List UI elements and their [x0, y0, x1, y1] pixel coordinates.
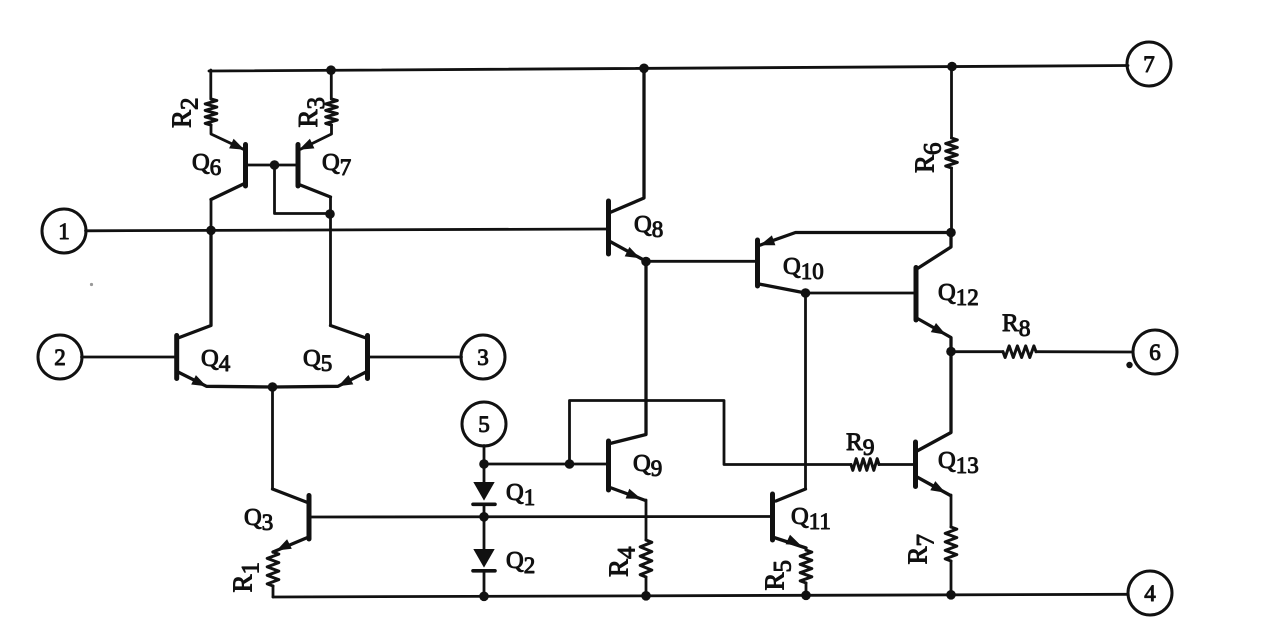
svg-text:1: 1: [58, 219, 70, 244]
node dust speck: [90, 283, 93, 286]
transistor Q8 emitter with arrow: [610, 242, 646, 262]
transistor Q10 collector: [759, 284, 806, 293]
svg-text:R2: R2: [167, 97, 204, 128]
transistor Q10 base bar: [755, 240, 760, 286]
wire base junction down to Q7 collector: [275, 165, 331, 214]
transistor Q8 collector to top rail: [610, 68, 644, 212]
transistor Q13 base bar: [913, 442, 918, 487]
node bottom rail / R7 junction: [946, 590, 956, 600]
node bottom rail / R4 junction: [641, 591, 651, 601]
transistor Q4 base bar: [174, 336, 179, 379]
resistor R1: [267, 552, 279, 586]
node Q8 emitter junction: [641, 257, 651, 267]
node pin5 / Q9 base wire junction: [479, 459, 489, 469]
svg-text:Q1: Q1: [506, 479, 535, 510]
node Q4/Q5 emitter junction: [268, 382, 278, 392]
pin 6: [1133, 330, 1177, 374]
transistor Q7 emitter arrow (PNP, into bar): [299, 139, 314, 150]
wire R8 node to resistor: [951, 350, 1003, 353]
transistor Q11 collector up to Q12 base node: [776, 489, 806, 501]
wire R2 bottom to Q6 emitter: [211, 125, 244, 149]
wire Q6 collector to pin1 node: [210, 200, 213, 231]
wire R6 down to Q10 emitter node: [950, 168, 953, 233]
node Q1-Q2 / base-wire junction: [479, 512, 489, 522]
transistor Q7 collector: [299, 185, 331, 198]
svg-text:Q10: Q10: [783, 253, 824, 284]
svg-text:6: 6: [1149, 340, 1161, 365]
transistor Q11 base bar: [770, 494, 775, 540]
transistor Q5 collector: [331, 326, 367, 339]
transistor Q5 base bar: [365, 336, 370, 379]
wire R5 to bottom rail: [805, 583, 808, 595]
node top-rail / R6 junction: [947, 62, 957, 72]
svg-text:3: 3: [477, 345, 489, 370]
wire pin5 node to Q9 base node: [484, 463, 570, 466]
pin 5: [462, 402, 506, 446]
svg-text:Q12: Q12: [938, 279, 979, 310]
node top-rail / R3 junction: [326, 65, 336, 75]
transistor Q4 collector: [178, 231, 211, 339]
pin 3: [461, 335, 505, 379]
node bottom rail / R5 junction: [801, 591, 811, 601]
wire Q6 base to Q7 base: [248, 164, 296, 167]
node Q10 emitter / R6 / Q12 collector junction: [946, 228, 956, 238]
resistor R9: [851, 459, 879, 471]
node top-rail / Q8 collector junction: [639, 64, 649, 74]
transistor Q6 emitter arrow (PNP, into bar): [229, 139, 244, 150]
wire R9 to Q13 base: [879, 463, 913, 466]
wire pin 2 to Q4 base: [82, 356, 175, 359]
transistor Q3 collector: [273, 489, 308, 503]
node pin1 / Q6-Q4 collectors junction: [206, 226, 216, 236]
pin 4: [1128, 571, 1172, 615]
svg-text:4: 4: [1144, 581, 1156, 606]
transistor Q6 base bar: [243, 145, 248, 187]
resistor R7: [945, 527, 957, 561]
transistor Q9 emitter with arrow: [610, 488, 646, 501]
transistor Q5 emitter with arrow: [273, 372, 366, 387]
svg-text:R7: R7: [903, 534, 940, 565]
node Q9 base junction: [565, 459, 575, 469]
svg-text:Q5: Q5: [303, 345, 332, 376]
resistor R4: [640, 540, 652, 577]
pin 7: [1127, 42, 1171, 86]
transistor Q13 emitter with arrow: [917, 477, 951, 496]
svg-text:7: 7: [1143, 52, 1155, 77]
resistor R8: [1003, 346, 1036, 358]
transistor Q12 base wire: [806, 292, 914, 295]
svg-text:Q11: Q11: [791, 503, 831, 534]
wire R8 to pin 6: [1036, 350, 1133, 353]
node Q12 emitter / Q13 collector / R8 junction: [946, 347, 956, 357]
diode Q2 (diode-connected): [483, 517, 486, 549]
wire Q5 base to pin 3: [370, 356, 462, 359]
svg-text:Q2: Q2: [506, 547, 535, 578]
node speck near pin 6: [1126, 362, 1132, 368]
svg-text:R4: R4: [604, 546, 641, 577]
transistor Q7 base bar: [296, 145, 301, 187]
svg-text:5: 5: [478, 412, 490, 437]
transistor Q6 collector: [211, 184, 245, 200]
resistor R3: [326, 99, 338, 125]
transistor Q13 collector up to R8 node: [917, 352, 951, 452]
svg-text:Q3: Q3: [244, 504, 273, 535]
wire top rail down to R6: [950, 67, 953, 139]
resistor R6: [946, 138, 958, 168]
wire R4 to bottom rail: [645, 577, 648, 596]
transistor Q12 collector from R6 node: [918, 233, 952, 269]
resistor R5: [800, 550, 812, 583]
wire Q9 emitter down to R4: [645, 500, 648, 540]
wire Q12 base node down to Q11 collector: [804, 293, 807, 489]
wire bottom supply rail to pin 4: [273, 594, 1128, 597]
svg-text:R9: R9: [846, 429, 874, 461]
svg-text:Q4: Q4: [201, 345, 231, 376]
wire top-rail corner down to R2: [209, 70, 212, 99]
wire Q9 base node up and over to R9: [570, 401, 852, 465]
wire pin 1 to Q8 base: [86, 229, 607, 231]
transistor Q10 emitter with arrow (PNP, into bar): [759, 233, 951, 246]
transistor Q11 emitter with arrow: [774, 538, 806, 549]
svg-text:R1: R1: [228, 562, 265, 593]
wire top supply rail to pin 7: [209, 66, 1128, 72]
svg-text:Q6: Q6: [192, 149, 221, 180]
wire Q8 emitter down to Q9 collector: [645, 262, 648, 435]
wire emitter junction down to Q3 collector: [271, 387, 274, 489]
transistor Q9 base bar: [606, 441, 611, 490]
svg-text:Q13: Q13: [938, 447, 979, 478]
wire pin 5 down to Q1 anode: [483, 446, 486, 483]
node Q7 base-collector tie: [325, 209, 335, 219]
wire R3 bottom to Q7 emitter: [301, 125, 332, 149]
svg-text:2: 2: [54, 345, 66, 370]
transistor Q3 base bar: [307, 496, 312, 540]
pin 1: [42, 209, 86, 253]
transistor Q4 emitter with arrow: [178, 372, 272, 387]
svg-text:Q8: Q8: [634, 211, 663, 242]
svg-text:R8: R8: [1002, 310, 1030, 342]
wire Q13 emitter down to R7: [950, 495, 953, 527]
wire top-rail down to R3: [330, 70, 333, 99]
resistor R2: [205, 99, 217, 125]
transistor Q3 emitter with arrow to R1: [273, 538, 308, 553]
transistor Q8 base bar: [606, 201, 611, 254]
wire Q8 emitter to Q10 base: [646, 260, 755, 263]
wire R1 to bottom rail: [272, 586, 275, 597]
wire Q9 base: [570, 463, 607, 466]
transistor Q9 collector up to Q8 emitter: [610, 262, 646, 444]
transistor Q12 base bar: [914, 268, 919, 321]
svg-text:R5: R5: [760, 560, 797, 591]
node Q6/Q7 base junction: [270, 160, 280, 170]
transistor Q12 emitter with arrow: [918, 319, 952, 352]
node bottom rail / Q2 junction: [479, 592, 489, 602]
wire R7 to bottom rail: [950, 561, 953, 595]
wire Q11 emitter down to R5: [805, 548, 808, 550]
pin 2: [38, 335, 82, 379]
svg-text:Q9: Q9: [633, 450, 662, 481]
wire Q7 collector down to Q5 collector: [329, 197, 332, 326]
svg-text:Q7: Q7: [322, 149, 351, 180]
diode Q1 (diode-connected): [473, 482, 494, 501]
svg-text:R6: R6: [910, 142, 947, 173]
wire Q3 base to Q11 base via Q1/Q2 node: [311, 515, 770, 518]
node Q10 collector / Q12 base / Q11 collector junction: [801, 288, 811, 298]
